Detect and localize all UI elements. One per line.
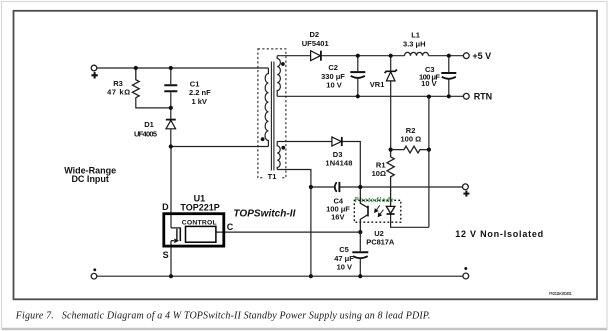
secondary polarity dot — [281, 62, 285, 66]
label T1 — [264, 172, 280, 181]
node drain — [169, 144, 173, 148]
svg-text:Figure 7. Schematic Diagram: Figure 7. Schematic Diagram of a 4 W TOP… — [15, 311, 431, 322]
svg-text:C2: C2 — [328, 63, 338, 72]
capacitor C5 — [334, 232, 368, 276]
svg-text:TOPSwitch-II: TOPSwitch-II — [233, 208, 295, 219]
svg-text:16V: 16V — [331, 213, 344, 222]
node B R2 right — [427, 148, 431, 152]
wire U1 drain — [170, 147, 172, 228]
wire LED cathode corner — [391, 214, 429, 227]
wire C4 left — [311, 186, 334, 188]
wire D2 cathode to L1 — [321, 55, 404, 57]
svg-text:47 kΩ: 47 kΩ — [107, 88, 130, 97]
svg-text:TOP221P: TOP221P — [180, 203, 219, 213]
wire bias top to D3 — [277, 141, 332, 143]
wire control pin to opto emitter node — [216, 231, 360, 233]
svg-text:10 V: 10 V — [337, 263, 352, 272]
svg-text:D1: D1 — [144, 120, 154, 129]
transformer T1 core — [271, 62, 274, 171]
svg-text:CONTROL: CONTROL — [182, 219, 217, 226]
svg-text:S: S — [163, 250, 169, 260]
U1 control block — [182, 219, 217, 242]
svg-text:C1: C1 — [190, 79, 200, 88]
terminal 12V - — [463, 273, 469, 279]
node C5 bottom — [358, 274, 362, 278]
inductor L1 — [403, 31, 428, 56]
optocoupler U2 dashed box — [354, 200, 401, 222]
node C2 bottom — [356, 94, 360, 98]
svg-text:R1: R1 — [376, 160, 386, 169]
opto LED — [386, 206, 395, 214]
capacitor C1 — [164, 68, 211, 108]
svg-text:C: C — [227, 222, 234, 232]
node C3 bottom — [447, 94, 451, 98]
transformer primary winding — [265, 68, 268, 147]
svg-text:DC Input: DC Input — [71, 174, 109, 184]
svg-text:VR1: VR1 — [370, 80, 385, 89]
resistor R1 — [372, 150, 395, 207]
svg-text:L1: L1 — [411, 31, 420, 40]
svg-text:UF4005: UF4005 — [134, 130, 157, 139]
node top of R3 — [134, 66, 138, 70]
node top of C1 — [169, 66, 173, 70]
wire secondary top rail — [277, 55, 310, 57]
wire bias return — [277, 170, 311, 277]
node A VR1/R1/R2 — [389, 148, 393, 152]
wire drain rail — [171, 146, 269, 148]
opto light arrows — [375, 205, 384, 216]
node bias return bottom — [309, 274, 313, 278]
wire RTN rail — [277, 95, 463, 97]
svg-text:1N4148: 1N4148 — [325, 159, 352, 168]
transformer T1 dashed box — [258, 49, 286, 178]
svg-text:+5 V: +5 V — [472, 51, 491, 61]
svg-text:12 V Non-Isolated: 12 V Non-Isolated — [455, 229, 544, 239]
wire 12V output line — [340, 186, 462, 188]
capacitor C2 — [321, 56, 365, 97]
svg-text:UF5401: UF5401 — [302, 39, 329, 48]
wire top input rail — [97, 67, 269, 69]
diode D1 — [134, 108, 176, 147]
primary polarity dot — [261, 137, 265, 141]
node bias return / C4 left — [309, 185, 313, 189]
node VR1 top — [389, 54, 393, 58]
terminal +5V — [463, 51, 491, 61]
opto phototransistor — [360, 187, 368, 232]
wire L1 to +5V terminal — [429, 55, 464, 57]
node D2/C2 — [356, 54, 360, 58]
plus mark 12V — [463, 191, 469, 197]
node R2 vertical on RTN — [427, 95, 431, 99]
terminal RTN — [463, 91, 492, 101]
svg-text:C5: C5 — [339, 245, 349, 254]
diode D2 — [302, 30, 329, 61]
svg-text:10 V: 10 V — [421, 79, 436, 88]
node L1/C3 — [447, 54, 451, 58]
svg-text:D3: D3 — [333, 150, 343, 159]
U1 TOPSwitch block — [164, 194, 224, 246]
capacitor C4 — [326, 182, 350, 222]
svg-text:3.3 μH: 3.3 μH — [403, 39, 426, 48]
svg-text:PC817A: PC817A — [366, 237, 395, 246]
svg-text:PI-2115-040401: PI-2115-040401 — [549, 291, 572, 296]
svg-text:D2: D2 — [310, 30, 320, 39]
minus dot mark input — [93, 268, 96, 271]
resistor R3 — [107, 68, 139, 98]
wire R2 right node vertical RTN to LED cathode corner — [428, 96, 430, 227]
plus mark input — [91, 72, 97, 78]
wire U1 source — [170, 241, 172, 277]
label U2 — [366, 229, 395, 246]
node control pin / opto emitter / C5 — [358, 230, 362, 234]
svg-text:T1: T1 — [268, 172, 277, 181]
U1 MOSFET — [171, 227, 180, 242]
node 12V/D3/C4/opto collector — [358, 185, 362, 189]
minus dot mark 12V — [464, 267, 467, 270]
svg-text:100 Ω: 100 Ω — [400, 134, 421, 143]
node clamp R3/C1/D1 — [169, 106, 173, 110]
svg-text:1 kV: 1 kV — [192, 97, 207, 106]
svg-text:10 V: 10 V — [326, 81, 341, 90]
bias polarity dot — [281, 146, 285, 150]
node U1 source bottom — [169, 274, 173, 278]
svg-text:10Ω: 10Ω — [372, 169, 386, 178]
capacitor C3 — [419, 56, 456, 97]
resistor R2 — [390, 126, 429, 153]
zener VR1 — [370, 56, 397, 89]
wire D3 cathode corner down to 12V node — [342, 142, 360, 188]
wire bottom source rail — [97, 275, 463, 277]
diode D3 — [325, 137, 352, 168]
transformer bias winding — [277, 142, 280, 170]
terminal - input — [91, 273, 97, 279]
svg-text:R3: R3 — [113, 79, 123, 88]
label Wide-Range DC Input — [64, 166, 116, 184]
wire R3 bottom to C1 node — [136, 97, 171, 108]
svg-text:D: D — [162, 202, 169, 212]
transformer secondary winding — [277, 56, 280, 97]
svg-text:RTN: RTN — [474, 91, 493, 101]
terminal 12V + — [463, 184, 469, 190]
svg-text:47 μF: 47 μF — [334, 254, 354, 263]
terminal + input — [91, 65, 97, 71]
wire VR1 anode down to node A — [390, 81, 392, 150]
